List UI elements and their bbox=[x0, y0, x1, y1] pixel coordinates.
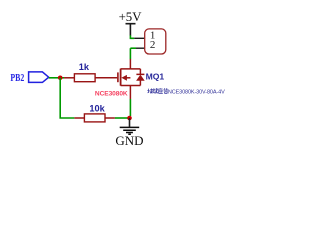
transistor MQ1 channel bar bbox=[120, 69, 122, 86]
connector J body bbox=[145, 29, 166, 54]
transistor MQ1 gate bar bbox=[117, 72, 119, 82]
port PB2 shape bbox=[29, 72, 49, 83]
pin 1 of connector bbox=[134, 37, 144, 39]
comment text: CJK glyph 应 bbox=[158, 88, 162, 93]
wire pin2 to drain bbox=[129, 48, 131, 59]
pin 2 of connector bbox=[136, 47, 144, 49]
wire to pin 1 bbox=[130, 35, 134, 38]
ground bars bbox=[120, 127, 140, 134]
transistor MQ1 drain link bbox=[121, 59, 131, 69]
resistor 1k right pin + gate wire bbox=[95, 77, 117, 79]
transistor MQ1 source arrow bbox=[126, 77, 131, 79]
comment text: CJK glyph 效 bbox=[153, 88, 158, 93]
resistor R 1k left pin bbox=[64, 77, 74, 79]
ground stem bbox=[129, 118, 131, 127]
resistor R 10k body bbox=[84, 114, 105, 122]
resistor R 1k body bbox=[74, 74, 95, 82]
resistor 10k right pin bbox=[105, 117, 115, 119]
svg-text:+5V: +5V bbox=[119, 10, 143, 24]
transistor MQ1 bulk link bbox=[121, 85, 141, 87]
comment text: CJK glyph 场 bbox=[147, 88, 152, 93]
wire port to junction bbox=[49, 77, 64, 79]
power bar symbol bbox=[126, 24, 136, 36]
resistor R 10k left pin bbox=[74, 117, 84, 119]
junction node B bbox=[127, 116, 132, 121]
wire 10k to gnd junction bbox=[115, 117, 130, 119]
svg-text:NCE3080K: NCE3080K bbox=[95, 90, 128, 97]
wire source to gnd junction bbox=[129, 99, 131, 116]
svg-text:GND: GND bbox=[115, 133, 143, 148]
junction node A bbox=[58, 76, 63, 81]
svg-text:1k: 1k bbox=[79, 62, 90, 72]
wire junction A down to 10k bbox=[60, 78, 74, 118]
svg-text:2: 2 bbox=[150, 39, 156, 51]
transistor MQ1 source pin bbox=[129, 86, 131, 100]
body diode of MQ1 bbox=[130, 69, 144, 86]
svg-text:NCE3080K-30V-80A-4V: NCE3080K-30V-80A-4V bbox=[168, 89, 225, 95]
wire to pin 2 bbox=[130, 47, 136, 49]
svg-text:MQ1: MQ1 bbox=[146, 72, 165, 82]
comment text: CJK glyph 管 bbox=[164, 88, 168, 93]
svg-text:PB2: PB2 bbox=[10, 73, 24, 84]
svg-text:10k: 10k bbox=[89, 103, 105, 113]
